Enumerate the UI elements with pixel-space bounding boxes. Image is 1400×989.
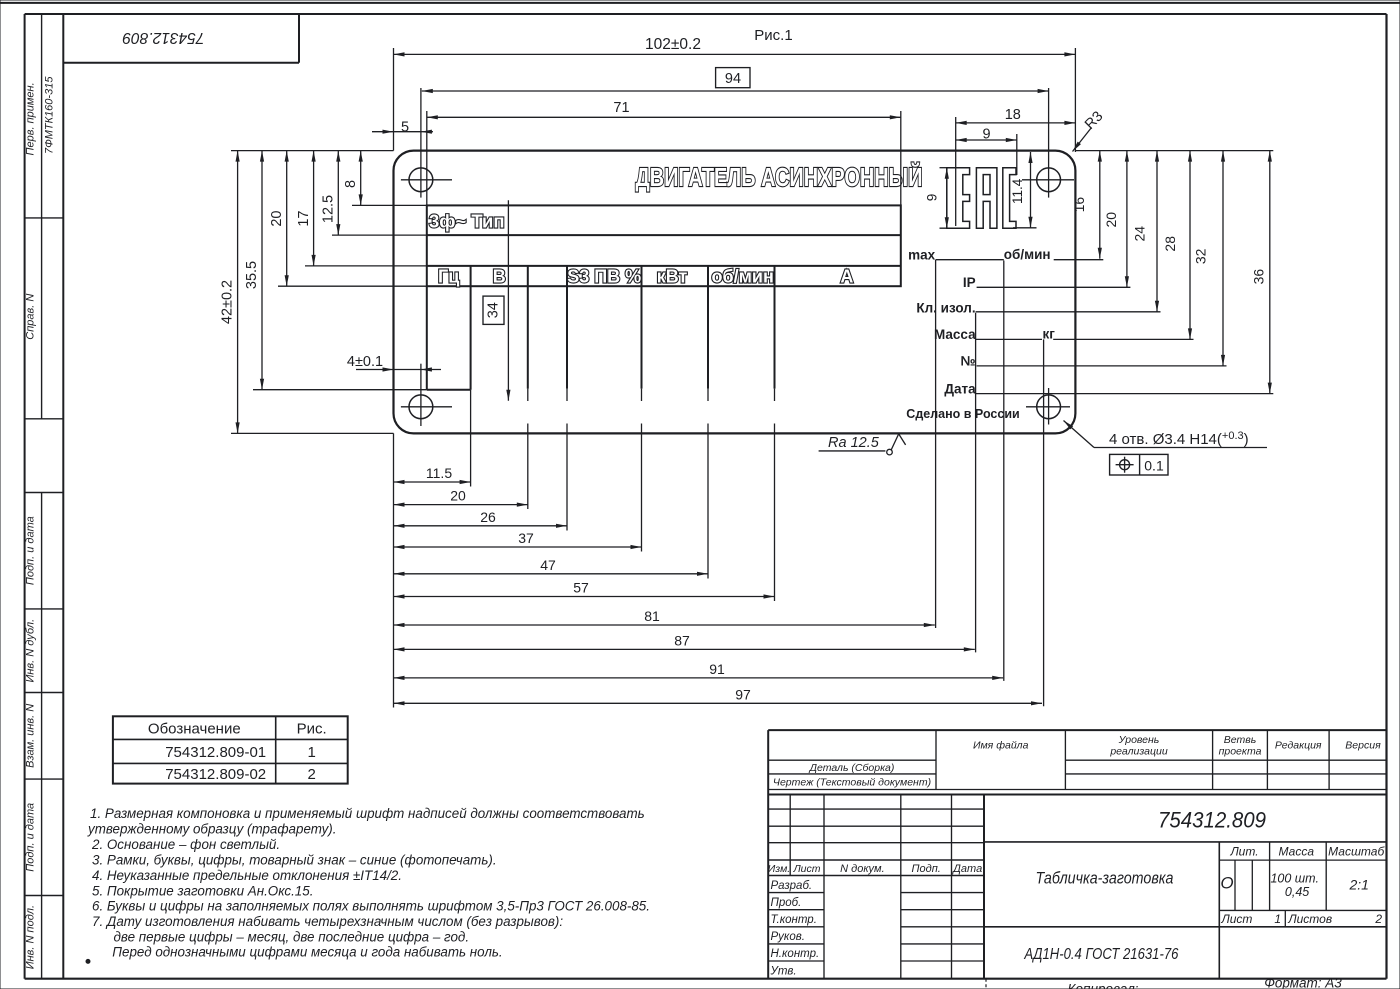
svg-text:26: 26 (480, 509, 496, 525)
svg-text:Листов: Листов (1287, 912, 1332, 926)
svg-text:Разраб.: Разраб. (771, 880, 813, 892)
svg-text:11.5: 11.5 (426, 465, 452, 481)
svg-text:3ф~ Тип: 3ф~ Тип (429, 211, 505, 232)
svg-text:Подп. и дата: Подп. и дата (25, 803, 37, 872)
svg-text:Проб.: Проб. (771, 897, 802, 909)
svg-text:20: 20 (269, 211, 285, 227)
svg-text:91: 91 (709, 661, 725, 677)
svg-text:реализации: реализации (1109, 746, 1167, 758)
svg-text:Перед однозначными цифрами мес: Перед однозначными цифрами месяца и года… (112, 945, 502, 960)
svg-text:Т.контр.: Т.контр. (771, 914, 817, 926)
svg-text:Деталь (Сборка): Деталь (Сборка) (809, 762, 895, 774)
svg-text:Перв. примен.: Перв. примен. (25, 82, 37, 155)
svg-text:6. Буквы и цифры на заполняемы: 6. Буквы и цифры на заполняемых полях вы… (92, 898, 650, 913)
svg-text:4±0.1: 4±0.1 (347, 354, 383, 370)
svg-text:18: 18 (1005, 107, 1021, 123)
svg-text:IP: IP (963, 275, 976, 290)
svg-text:42±0.2: 42±0.2 (220, 280, 236, 324)
svg-text:Масштаб: Масштаб (1328, 845, 1385, 859)
svg-text:32: 32 (1192, 248, 1208, 264)
svg-text:об/мин: об/мин (712, 266, 774, 286)
svg-text:утвержденному образцу (трафаре: утвержденному образцу (трафарету). (87, 822, 336, 837)
svg-text:36: 36 (1250, 269, 1266, 285)
svg-text:37: 37 (518, 530, 534, 546)
svg-text:35.5: 35.5 (244, 261, 260, 289)
svg-text:102±0.2: 102±0.2 (645, 36, 701, 53)
svg-text:5: 5 (401, 120, 409, 136)
svg-text:0.1: 0.1 (1144, 457, 1164, 473)
svg-text:11.4: 11.4 (1010, 178, 1025, 204)
svg-text:S3 ПВ %: S3 ПВ % (567, 266, 641, 286)
svg-text:28: 28 (1162, 236, 1178, 252)
svg-text:Изм.: Изм. (768, 863, 790, 875)
svg-text:Формат: А3: Формат: А3 (1264, 976, 1342, 989)
svg-text:N докум.: N докум. (840, 863, 885, 875)
svg-text:57: 57 (573, 580, 589, 596)
svg-text:12.5: 12.5 (321, 195, 337, 223)
svg-text:7. Дату изготовления набивать: 7. Дату изготовления набивать четырехзна… (92, 914, 563, 929)
svg-text:1: 1 (1274, 912, 1281, 926)
svg-text:Имя файла: Имя файла (973, 740, 1029, 752)
svg-text:1. Размерная компоновка и прим: 1. Размерная компоновка и применяемый шр… (90, 806, 645, 821)
svg-text:Сделано в России: Сделано в России (906, 407, 1019, 421)
svg-text:Инв. N подл.: Инв. N подл. (25, 905, 37, 969)
svg-text:87: 87 (674, 632, 690, 648)
svg-text:Подп.: Подп. (912, 863, 941, 875)
svg-text:Ra 12.5: Ra 12.5 (828, 435, 880, 451)
svg-text:2:1: 2:1 (1348, 877, 1368, 893)
svg-text:Руков.: Руков. (771, 931, 805, 943)
svg-text:8: 8 (343, 180, 359, 188)
svg-text:94: 94 (725, 71, 741, 87)
svg-text:max: max (908, 247, 936, 262)
svg-text:81: 81 (644, 608, 660, 624)
svg-text:16: 16 (1071, 197, 1087, 213)
svg-text:24: 24 (1132, 226, 1148, 242)
svg-text:две первые цифры – месяц, две: две первые цифры – месяц, две последние … (114, 930, 470, 945)
svg-text:Гц: Гц (438, 266, 459, 286)
svg-text:проекта: проекта (1219, 746, 1262, 758)
svg-text:47: 47 (540, 557, 556, 573)
svg-text:0,45: 0,45 (1285, 885, 1309, 899)
svg-text:754312.809-01: 754312.809-01 (165, 744, 266, 761)
svg-text:20: 20 (450, 488, 466, 504)
svg-text:754312.809: 754312.809 (1158, 808, 1266, 833)
svg-text:Масса: Масса (1279, 845, 1315, 859)
svg-text:Подп. и дата: Подп. и дата (25, 516, 37, 585)
svg-text:2: 2 (308, 766, 316, 783)
svg-text:№: № (961, 354, 976, 369)
svg-text:А: А (840, 266, 853, 286)
svg-text:Ветвь: Ветвь (1224, 734, 1256, 746)
svg-text:Дата: Дата (951, 863, 982, 875)
svg-text:об/мин: об/мин (1004, 247, 1051, 262)
svg-text:97: 97 (735, 686, 751, 702)
svg-text:17: 17 (296, 211, 312, 227)
svg-text:7ФМТК160-315: 7ФМТК160-315 (44, 76, 56, 154)
svg-text:Рис.: Рис. (297, 720, 327, 737)
svg-text:9: 9 (983, 127, 991, 143)
svg-text:Н.контр.: Н.контр. (771, 948, 820, 960)
svg-text:Табличка-заготовка: Табличка-заготовка (1036, 869, 1174, 888)
svg-text:Кл. изол.: Кл. изол. (916, 300, 975, 315)
svg-text:Копировал:: Копировал: (1068, 982, 1139, 989)
svg-text:Взам. инв. N: Взам. инв. N (25, 704, 37, 768)
svg-text:71: 71 (613, 100, 629, 116)
svg-text:Дата: Дата (944, 381, 976, 396)
svg-text:3. Рамки, буквы, цифры, товарн: 3. Рамки, буквы, цифры, товарный знак – … (92, 853, 497, 868)
svg-text:20: 20 (1103, 212, 1119, 228)
svg-text:В: В (493, 266, 506, 286)
svg-text:Версия: Версия (1345, 740, 1381, 752)
svg-text:34: 34 (486, 302, 502, 318)
svg-text:Уровень: Уровень (1118, 734, 1160, 746)
svg-text:2. Основание – фон светлый.: 2. Основание – фон светлый. (91, 837, 280, 852)
svg-text:Инв. N дубл.: Инв. N дубл. (25, 619, 37, 683)
svg-text:2: 2 (1374, 912, 1382, 926)
svg-text:О: О (1220, 874, 1233, 893)
svg-text:Обозначение: Обозначение (148, 720, 241, 737)
svg-text:Редакция: Редакция (1275, 740, 1322, 752)
svg-text:9: 9 (925, 194, 940, 202)
svg-text:Рис.1: Рис.1 (754, 27, 792, 44)
svg-text:ДВИГАТЕЛЬ АСИНХРОННЫЙ: ДВИГАТЕЛЬ АСИНХРОННЫЙ (636, 162, 923, 192)
svg-text:АД1Н-0.4 ГОСТ 21631-76: АД1Н-0.4 ГОСТ 21631-76 (1024, 946, 1179, 963)
svg-text:Лит.: Лит. (1229, 845, 1258, 859)
svg-text:5. Покрытие заготовки Ан.Окс.1: 5. Покрытие заготовки Ан.Окс.15. (92, 883, 313, 898)
svg-text:Масса: Масса (934, 327, 976, 342)
svg-text:100 шт.: 100 шт. (1270, 872, 1318, 886)
svg-text:Лист: Лист (1221, 912, 1253, 926)
svg-text:754312.809: 754312.809 (122, 29, 204, 46)
svg-text:Утв.: Утв. (770, 965, 797, 977)
svg-text:1: 1 (308, 744, 316, 761)
svg-text:Лист: Лист (792, 863, 820, 875)
svg-text:4. Неуказанные предельные откл: 4. Неуказанные предельные отклонения ±IT… (92, 868, 402, 883)
svg-text:Справ. N: Справ. N (25, 294, 37, 340)
svg-text:кВт: кВт (657, 266, 688, 286)
svg-text:754312.809-02: 754312.809-02 (165, 766, 266, 783)
svg-text:Чертеж (Текстовый документ): Чертеж (Текстовый документ) (773, 777, 931, 789)
